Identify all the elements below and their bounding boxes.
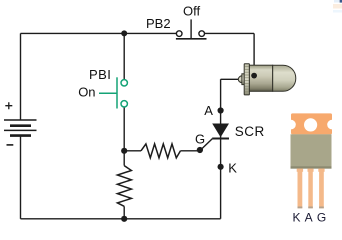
svg-text:SCR: SCR	[235, 124, 265, 139]
svg-text:K: K	[228, 160, 237, 175]
svg-text:PB2: PB2	[146, 16, 171, 31]
svg-text:A: A	[204, 103, 213, 118]
svg-text:G: G	[195, 132, 205, 147]
svg-text:K A G: K A G	[293, 211, 327, 225]
svg-text:Off: Off	[183, 4, 200, 19]
svg-text:On: On	[78, 85, 95, 100]
svg-text:PBI: PBI	[89, 67, 111, 82]
